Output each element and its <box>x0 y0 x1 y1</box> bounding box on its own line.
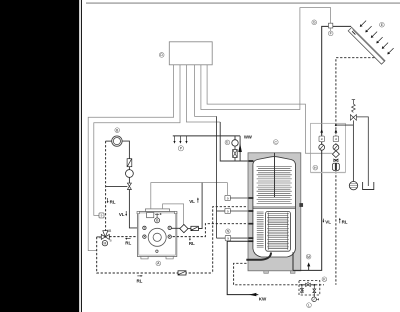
label D <box>159 53 164 58</box>
sidebar divider line <box>81 0 82 312</box>
circulation pump on boiler supply <box>125 170 133 178</box>
svg-text:RL: RL <box>342 219 348 224</box>
pump solar supply <box>319 144 325 150</box>
tank port stubs <box>248 161 253 241</box>
solar return line (dashed) <box>336 58 379 285</box>
dashed return drop to mixer AB <box>105 141 107 232</box>
wire heating supply into tank top <box>220 122 252 161</box>
sensor box 3 <box>225 236 231 241</box>
wire into WW valve <box>234 136 236 140</box>
collector sensor well <box>329 23 333 28</box>
burner circle <box>148 228 166 246</box>
svg-text:WW: WW <box>244 134 253 139</box>
drain cup <box>363 182 374 190</box>
wire pipe1 distributor to left riser <box>88 65 173 251</box>
bypass wire to return line <box>106 185 128 187</box>
wire pipe3 distributor down <box>186 65 220 122</box>
sensor box solar return <box>333 136 338 142</box>
RL label with left arrow (mixer-boiler) <box>126 238 131 240</box>
dashed system boundary left/bottom <box>97 237 213 273</box>
VL label with down arrow (solar) <box>322 219 324 222</box>
sensor cable drop <box>216 116 218 238</box>
sensor box 1 <box>225 195 231 200</box>
wire valve to boiler port <box>129 190 142 228</box>
wire <box>128 167 130 170</box>
storage tank insulation <box>248 153 301 271</box>
RL label with down arrow (boiler return) <box>189 238 191 240</box>
svg-text:M: M <box>103 242 106 246</box>
check damper on bottom dashed line <box>178 271 186 276</box>
black sidebar <box>0 0 79 312</box>
svg-text:RL: RL <box>110 199 116 204</box>
solar pipe riser into vessel <box>292 252 294 270</box>
label L <box>307 303 312 308</box>
heating-circuit distributor box D <box>169 42 212 65</box>
shut-off valve center <box>306 283 311 286</box>
cold water pipe KW <box>227 241 258 294</box>
junction dots <box>301 284 303 286</box>
tank feet <box>264 271 269 274</box>
wire pump B right riser down <box>122 141 129 159</box>
label E collector <box>380 22 385 27</box>
mixer motor M <box>102 241 107 246</box>
wire down to expansion vessel <box>352 125 354 181</box>
svg-text:RL: RL <box>189 241 195 246</box>
wire box1 to tank <box>230 197 252 199</box>
safety valve right branch <box>313 285 315 289</box>
wire safety group riser <box>352 120 354 125</box>
dashed cold water safety line <box>234 263 299 285</box>
wire boiler supply port row <box>171 227 180 229</box>
boiler top platform <box>145 209 169 212</box>
wire mixer A port stub <box>97 236 102 238</box>
wire <box>187 228 191 230</box>
circulation arrow <box>308 266 310 271</box>
svg-text:KW: KW <box>259 296 267 301</box>
label F <box>330 28 332 31</box>
svg-text:L: L <box>308 303 310 307</box>
svg-text:VL: VL <box>119 212 125 217</box>
boiler control box <box>147 213 154 218</box>
flow arrow left line <box>320 129 323 132</box>
top gray rule <box>86 3 400 4</box>
svg-text:ə: ə <box>101 214 103 218</box>
junction dot expansion line <box>335 124 337 126</box>
svg-text:B: B <box>110 239 112 243</box>
shut-off valve on boiler supply <box>127 183 131 189</box>
sun ray arrows <box>360 21 394 55</box>
upper heat exchanger coil <box>257 167 292 204</box>
boiler bottom port <box>156 250 158 252</box>
boiler corner tabs <box>137 211 139 213</box>
wire box2 to tank <box>230 210 252 212</box>
wire boiler top to header <box>151 183 228 209</box>
fill valve <box>334 159 338 162</box>
svg-text:RL: RL <box>125 241 131 246</box>
three-way mixing valve <box>101 231 109 240</box>
divider flange <box>253 206 295 208</box>
WW valve head <box>232 140 238 146</box>
safety group dashed box <box>299 281 320 295</box>
drain valve left <box>301 285 303 289</box>
dashed boundary to tank (upper) <box>213 207 250 273</box>
sensor box solar supply <box>319 136 324 142</box>
label A <box>156 261 161 266</box>
sensor box a <box>99 213 104 218</box>
label M <box>306 254 311 259</box>
svg-text:ə: ə <box>321 137 323 141</box>
label H <box>313 165 318 170</box>
wire pipe5 sensor cable to collector <box>201 8 331 110</box>
corrugated inner tank <box>266 211 291 251</box>
pump solar return <box>333 144 339 150</box>
svg-text:G: G <box>313 21 316 25</box>
expansion vessel <box>349 181 357 189</box>
svg-text:F: F <box>330 32 332 36</box>
boiler feet <box>141 257 148 259</box>
tank sensor pad <box>300 203 303 206</box>
solar supply line (solid) <box>293 26 351 270</box>
collector panel <box>348 27 385 64</box>
cold water dip pipe <box>274 153 276 197</box>
label E <box>225 140 230 145</box>
boiler ports <box>143 226 146 229</box>
lower left coil column <box>257 212 264 247</box>
wire branch to box2 <box>217 210 225 212</box>
label G <box>312 20 317 25</box>
wire header drop to sensor box 1 <box>227 183 229 196</box>
dashed return tank to boiler (N line) <box>171 224 250 237</box>
boiler safety valve + thermometer <box>155 213 162 223</box>
KW flow arrow <box>249 293 257 296</box>
wire pipe2 distributor to sensor box a <box>94 65 180 216</box>
svg-text:VL: VL <box>189 199 195 204</box>
inner vessel <box>253 157 296 257</box>
label B <box>115 128 120 133</box>
svg-text:ə: ə <box>335 137 337 141</box>
wire pump B left <box>106 140 112 142</box>
wire pipe4 distributor down <box>195 65 217 117</box>
label P <box>178 146 183 151</box>
svg-text:M: M <box>307 255 310 259</box>
solar pump barrel <box>333 163 340 170</box>
warm water line with tap arrows <box>173 135 240 137</box>
wire <box>128 177 130 183</box>
wire pipe6 to solar station <box>207 65 332 154</box>
RL label with down arrow <box>107 198 109 202</box>
check valve diamond <box>332 151 339 158</box>
svg-text:A: A <box>99 236 101 240</box>
svg-text:RL: RL <box>137 279 143 284</box>
dashed wire mixer B to boiler return port <box>109 236 143 238</box>
RL label with right arrow (bottom) <box>137 275 141 277</box>
label C <box>273 140 278 145</box>
check valve after pump <box>191 226 199 231</box>
pressure gauge pump <box>312 297 317 302</box>
dashed line through safety group <box>299 284 324 286</box>
svg-text:ə: ə <box>227 209 229 213</box>
svg-text:ə: ə <box>227 196 229 200</box>
svg-text:VL: VL <box>325 219 331 224</box>
wire boiler top 2 to pump <box>163 204 184 225</box>
WW valve body with X <box>233 150 238 158</box>
tank drain pipe <box>246 253 271 260</box>
sensor box 2 <box>225 208 231 213</box>
loading pump (diamond) <box>180 225 188 233</box>
flow arrow right line <box>335 129 338 132</box>
check valve on boiler supply <box>127 159 132 167</box>
safety valve body <box>350 115 356 121</box>
RL label with up arrow (solar) <box>339 220 341 223</box>
solar station box <box>311 123 346 172</box>
wire to box3 <box>217 237 226 239</box>
wire check to riser <box>198 183 202 229</box>
wire valve stem <box>234 146 236 149</box>
svg-text:ə: ə <box>227 236 229 240</box>
discharge pipe to drain cup <box>356 117 368 186</box>
wire box3 to tank <box>231 237 253 239</box>
label N <box>226 229 231 234</box>
pump B <box>112 136 122 146</box>
boiler body <box>137 212 176 257</box>
label K <box>322 277 327 282</box>
wire to safety group <box>336 124 354 126</box>
safety valve spring <box>352 100 356 113</box>
WW outlet drop with flow arrow <box>239 136 241 161</box>
